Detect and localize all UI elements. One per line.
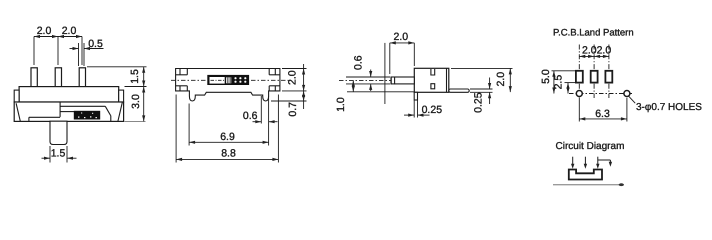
- svg-text:0.25: 0.25: [473, 92, 485, 113]
- svg-text:2.0: 2.0: [37, 25, 52, 37]
- svg-text:1.0: 1.0: [335, 97, 347, 112]
- svg-text:2.0: 2.0: [597, 44, 612, 56]
- svg-text:3.0: 3.0: [130, 94, 142, 109]
- svg-text:2.0: 2.0: [582, 44, 597, 56]
- svg-text:1.5: 1.5: [51, 147, 66, 159]
- svg-text:8.8: 8.8: [221, 148, 236, 160]
- svg-text:0.5: 0.5: [88, 38, 103, 50]
- svg-text:P.C.B.Land Pattern: P.C.B.Land Pattern: [553, 28, 634, 39]
- svg-text:1.5: 1.5: [129, 69, 141, 84]
- svg-text:6.9: 6.9: [220, 131, 235, 143]
- svg-text:0.6: 0.6: [243, 110, 258, 122]
- svg-text:2.0: 2.0: [62, 25, 77, 37]
- svg-text:2.0: 2.0: [393, 31, 408, 43]
- svg-text:0.25: 0.25: [422, 104, 443, 116]
- svg-text:3-φ0.7 HOLES: 3-φ0.7 HOLES: [636, 102, 702, 113]
- svg-text:0.6: 0.6: [352, 55, 364, 70]
- svg-text:0.7: 0.7: [287, 102, 299, 117]
- svg-text:5.0: 5.0: [540, 69, 552, 84]
- svg-text:2.5: 2.5: [553, 75, 565, 90]
- svg-text:6.3: 6.3: [595, 108, 610, 120]
- svg-text:2.0: 2.0: [287, 70, 299, 85]
- svg-text:2.0: 2.0: [495, 72, 507, 87]
- svg-text:Circuit Diagram: Circuit Diagram: [556, 141, 625, 152]
